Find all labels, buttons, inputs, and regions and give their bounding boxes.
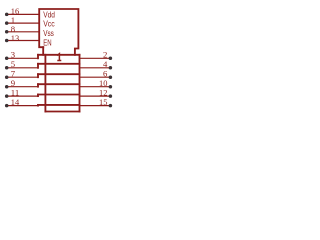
lower body left edge [44, 55, 46, 112]
pin 3 end dot [5, 57, 9, 61]
svg-text:3: 3 [11, 50, 15, 60]
channel 5 inner line [38, 94, 80, 96]
pin 16 (Vdd) wire [8, 13, 39, 15]
svg-text:7: 7 [11, 69, 16, 79]
svg-text:Vss: Vss [43, 29, 54, 38]
pin 6 end dot [109, 75, 113, 79]
channel 1 inner line (top edge) [38, 54, 80, 56]
svg-text:12: 12 [99, 88, 107, 98]
svg-text:2: 2 [103, 50, 107, 60]
pin 14 end dot [5, 104, 9, 108]
channel 2 left jog [37, 64, 39, 68]
svg-text:6: 6 [103, 69, 108, 79]
pin 6 wire [80, 76, 109, 78]
channel 6 left jog [37, 104, 39, 107]
pin 16 end dot [5, 13, 9, 17]
pin 10 wire [80, 86, 109, 88]
pin 1 end dot [5, 21, 9, 25]
channel 6 inner line [38, 104, 80, 106]
pin 7 end dot [5, 75, 9, 79]
pin 10 end dot [109, 85, 113, 89]
channel 4 left jog [37, 84, 39, 87]
pin 12 end dot [109, 94, 113, 98]
pin 2 wire [80, 57, 109, 59]
IC U1 upper body outline [39, 9, 78, 55]
pin 8 (Vss) wire [8, 31, 39, 33]
svg-text:Vdd: Vdd [43, 10, 55, 19]
channel 2 inner line [38, 63, 80, 65]
pin 9 end dot [5, 85, 9, 89]
pin 8 end dot [5, 30, 9, 34]
channel 1 left jog [37, 55, 39, 59]
pin 13 (EN) wire [8, 40, 39, 42]
pin 11 end dot [5, 94, 9, 98]
pin 11 wire [8, 95, 38, 97]
lower body right edge [79, 55, 81, 112]
pin 4 wire [80, 67, 109, 69]
pin 5 end dot [5, 66, 9, 70]
svg-text:13: 13 [11, 33, 19, 43]
svg-text:Vcc: Vcc [43, 20, 55, 29]
svg-text:14: 14 [11, 97, 20, 107]
pin 4 end dot [109, 66, 113, 70]
channel 3 left jog [37, 74, 39, 77]
channel 3 inner line [38, 73, 80, 75]
pin 13 end dot [5, 39, 9, 43]
pin 15 wire [80, 105, 109, 107]
pin 5 wire [8, 67, 38, 69]
svg-text:15: 15 [99, 97, 107, 107]
unit label 1 [57, 54, 61, 61]
body edge left neck [42, 47, 44, 55]
svg-text:EN: EN [43, 39, 52, 48]
pin 14 wire [8, 105, 38, 107]
lower body bottom edge [45, 111, 79, 113]
svg-text:11: 11 [11, 88, 19, 98]
pin 7 wire [8, 76, 38, 78]
pin 2 end dot [109, 57, 113, 61]
channel 4 inner line [38, 83, 80, 85]
channel 5 left jog [37, 95, 39, 97]
pin 9 wire [8, 86, 38, 88]
pin 1 (Vcc) wire [8, 22, 39, 24]
pin 3 wire [8, 57, 38, 59]
pin 12 wire [80, 95, 109, 97]
pin 15 end dot [109, 104, 113, 108]
